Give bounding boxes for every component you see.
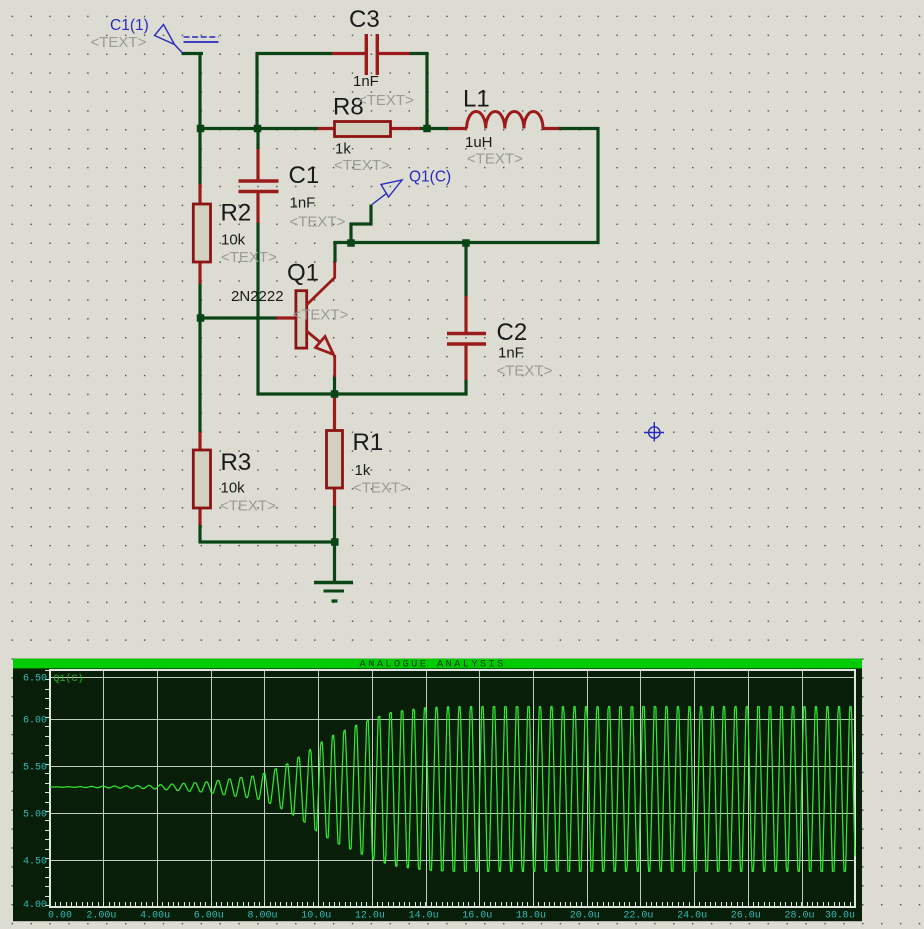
wire C1 top green stub [256, 127, 259, 149]
graph axes border [50, 670, 855, 907]
wire Q1 base lead [276, 316, 297, 319]
wire C3 right lead [379, 52, 411, 55]
wire V x200 above base [198, 283, 201, 320]
svg-text:24.0u: 24.0u [677, 911, 707, 922]
wire V x200 to R3 [198, 318, 201, 433]
graph gridlines [50, 670, 855, 907]
node junction rail-C3 [254, 125, 262, 133]
wire H y542 [199, 540, 337, 543]
analogue analysis graph window [13, 649, 862, 922]
wire rail y128 mid [419, 127, 448, 130]
svg-text:5.50: 5.50 [23, 763, 47, 774]
svg-text:C1(1): C1(1) [110, 17, 149, 34]
svg-text:8.00u: 8.00u [247, 911, 277, 922]
svg-text:1nF: 1nF [498, 345, 524, 362]
svg-text:4.00u: 4.00u [140, 911, 170, 922]
wire V x598 [596, 127, 599, 244]
wire R8 right lead [390, 127, 421, 130]
svg-text:R2: R2 [221, 200, 252, 227]
wire collector top stub [333, 241, 336, 263]
wire V x427 [425, 52, 428, 130]
graph y-axis labels [23, 674, 47, 912]
wire V x257 [255, 52, 258, 130]
wire base y318 [200, 316, 277, 319]
wire probe stub top-left [182, 52, 204, 55]
node junction ground rail [331, 538, 339, 546]
svg-text:1nF: 1nF [353, 73, 379, 90]
svg-text:1nF: 1nF [290, 195, 316, 212]
wire V left x200 [198, 52, 201, 130]
svg-text:20.0u: 20.0u [570, 911, 600, 922]
svg-text:Q1: Q1 [287, 260, 319, 287]
capacitor C2 [447, 334, 486, 345]
svg-text:28.0u: 28.0u [784, 911, 814, 922]
wire H y242 [334, 241, 600, 244]
inductor L1 [467, 111, 543, 128]
wire R1 top lead [333, 394, 336, 431]
svg-text:C3: C3 [349, 6, 380, 33]
capacitor C1 [239, 181, 279, 192]
svg-text:ANALOGUE ANALYSIS: ANALOGUE ANALYSIS [360, 659, 506, 671]
node origin marker [644, 422, 664, 442]
resistor R3 [193, 450, 210, 508]
svg-text:<TEXT>: <TEXT> [220, 498, 276, 515]
svg-text:1uH: 1uH [465, 134, 493, 151]
svg-text:Q1(C): Q1(C) [409, 169, 451, 186]
svg-text:<TEXT>: <TEXT> [221, 249, 277, 266]
svg-text:16.0u: 16.0u [462, 911, 492, 922]
svg-text:Q1(C): Q1(C) [54, 673, 84, 685]
node junction collector-C2 [462, 239, 470, 247]
wire C2 top lead [464, 296, 467, 334]
wire R2 top lead [198, 184, 201, 205]
wire emitter green stub [333, 376, 336, 392]
wire C1 bottom vertical [256, 222, 259, 396]
node junction emitter [331, 390, 339, 398]
wire R1 bottom green [333, 505, 336, 544]
svg-text:12.0u: 12.0u [355, 911, 385, 922]
wire H y394 [257, 392, 468, 395]
wire C2 bottom lead [464, 343, 467, 380]
wire C1 bottom lead [256, 192, 259, 223]
resistor R8 [335, 122, 391, 137]
svg-text:5.00: 5.00 [23, 810, 47, 821]
node junction base-left [197, 314, 205, 322]
svg-text:0.00: 0.00 [48, 911, 72, 922]
svg-text:22.0u: 22.0u [623, 911, 653, 922]
resistor R2 [193, 204, 210, 262]
svg-text:<TEXT>: <TEXT> [293, 307, 349, 324]
svg-text:10k: 10k [221, 480, 246, 497]
wire rail y128 right of L1 [558, 127, 600, 130]
wire rail y128 left [199, 127, 318, 130]
wire C1 top lead [256, 148, 259, 180]
svg-text:18.0u: 18.0u [516, 911, 546, 922]
wire C3 left lead [332, 52, 365, 55]
voltage probe Q1(C) [372, 180, 402, 205]
wire R3 bottom stub [198, 524, 201, 544]
svg-text:4.50: 4.50 [23, 857, 47, 868]
ground [314, 583, 353, 602]
svg-text:6.00: 6.00 [23, 716, 47, 727]
svg-text:C1: C1 [289, 162, 320, 189]
wire R3 bottom lead [198, 506, 201, 525]
svg-text:<TEXT>: <TEXT> [290, 214, 346, 231]
node junction rail-left [197, 125, 205, 133]
svg-text:30.0u: 30.0u [825, 911, 855, 922]
wire R3 top lead [198, 432, 201, 451]
resistor R1 [327, 431, 343, 489]
wire L1 right lead [542, 127, 559, 130]
wire C2 top green [464, 241, 467, 297]
svg-text:26.0u: 26.0u [731, 911, 761, 922]
graph axis ticks [45, 671, 856, 907]
voltage probe C1(1) [155, 25, 219, 54]
capacitor C3 [366, 34, 377, 75]
wire R1 bottom lead [333, 487, 336, 506]
svg-text:<TEXT>: <TEXT> [334, 157, 390, 174]
svg-text:<TEXT>: <TEXT> [497, 363, 553, 380]
node junction rail-R8 [423, 125, 431, 133]
wire C2 bottom green [464, 379, 467, 396]
wire R2 bottom lead [198, 261, 201, 284]
svg-text:R3: R3 [221, 449, 252, 476]
svg-text:<TEXT>: <TEXT> [353, 480, 409, 497]
svg-text:<TEXT>: <TEXT> [358, 92, 414, 109]
svg-text:6.50: 6.50 [23, 674, 47, 685]
graph trace Q1(C) waveform [50, 707, 855, 872]
svg-text:<TEXT>: <TEXT> [91, 34, 147, 51]
svg-text:R1: R1 [353, 429, 384, 456]
svg-text:2N2222: 2N2222 [231, 288, 284, 305]
wire ground stub [333, 542, 336, 581]
svg-text:10k: 10k [221, 232, 246, 249]
wire V x200 below rail [198, 127, 201, 185]
node junction collector-probe [347, 239, 355, 247]
svg-text:4.00: 4.00 [23, 900, 47, 911]
svg-text:1k: 1k [355, 462, 371, 479]
graph x-axis labels [48, 911, 855, 922]
svg-text:6.00u: 6.00u [194, 911, 224, 922]
svg-text:14.0u: 14.0u [409, 911, 439, 922]
wire C3 top right segment [410, 52, 429, 55]
svg-text:2.00u: 2.00u [86, 911, 116, 922]
wire C3 top left segment [256, 52, 333, 55]
svg-text:L1: L1 [463, 86, 490, 113]
svg-text:1k: 1k [335, 141, 351, 158]
wire R8 left lead [318, 127, 336, 130]
wire probe staircase Q1(C) [351, 205, 371, 244]
wire L1 left lead [448, 127, 467, 130]
svg-text:<TEXT>: <TEXT> [467, 151, 523, 168]
svg-text:C2: C2 [497, 319, 528, 346]
transistor Q1 [296, 262, 335, 377]
svg-text:10.0u: 10.0u [301, 911, 331, 922]
